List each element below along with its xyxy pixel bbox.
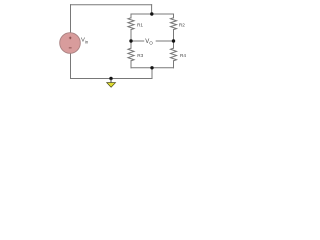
wire: right branch upper lead — [173, 14, 175, 18]
wire: right branch lower lead R4 to bottom rail — [173, 61, 175, 68]
wire: left branch upper lead — [130, 14, 132, 18]
wire: right branch middle lead R2 to node B — [173, 30, 175, 41]
svg-text:R4: R4 — [180, 53, 186, 58]
wire: Vo left segment from node A — [131, 40, 144, 42]
wire: bridge top rail — [131, 13, 174, 15]
wire: left vertical from top corner through source to bottom corner — [70, 5, 72, 79]
wire: bridge bottom rail — [131, 67, 174, 69]
svg-text:R3: R3 — [137, 53, 143, 58]
wire: right branch lead node B to R4 — [173, 41, 175, 48]
wire: left branch middle lead R1 to node A — [130, 30, 132, 41]
wire: left branch lower lead R3 to bottom rail — [130, 61, 132, 68]
svg-text:Vin: Vin — [81, 38, 89, 45]
wire: Vo right segment to node B — [156, 40, 173, 42]
voltage source V_in — [60, 33, 81, 54]
node: bottom feed junction — [150, 66, 153, 69]
resistor R2 — [171, 18, 177, 30]
wire: bottom horizontal from source to bridge stem — [71, 78, 153, 80]
wire: bottom feed stem up to bridge bottom rail — [151, 68, 153, 79]
node B: right mid junction — [172, 39, 175, 42]
wire: top horizontal from source to bridge feed — [71, 4, 152, 6]
wire: top feed drop into bridge top rail — [151, 5, 153, 14]
svg-text:R2: R2 — [179, 23, 185, 28]
resistor R4 — [171, 48, 177, 61]
svg-text:R1: R1 — [137, 23, 143, 28]
node: ground junction — [109, 77, 112, 80]
wire: left branch lead node A to R3 — [130, 41, 132, 48]
resistor R1 — [128, 18, 134, 30]
node: top feed junction — [150, 12, 153, 15]
node A: left mid junction — [129, 39, 132, 42]
svg-text:VO: VO — [145, 39, 153, 46]
resistor R3 — [128, 48, 134, 61]
ground — [107, 79, 116, 87]
